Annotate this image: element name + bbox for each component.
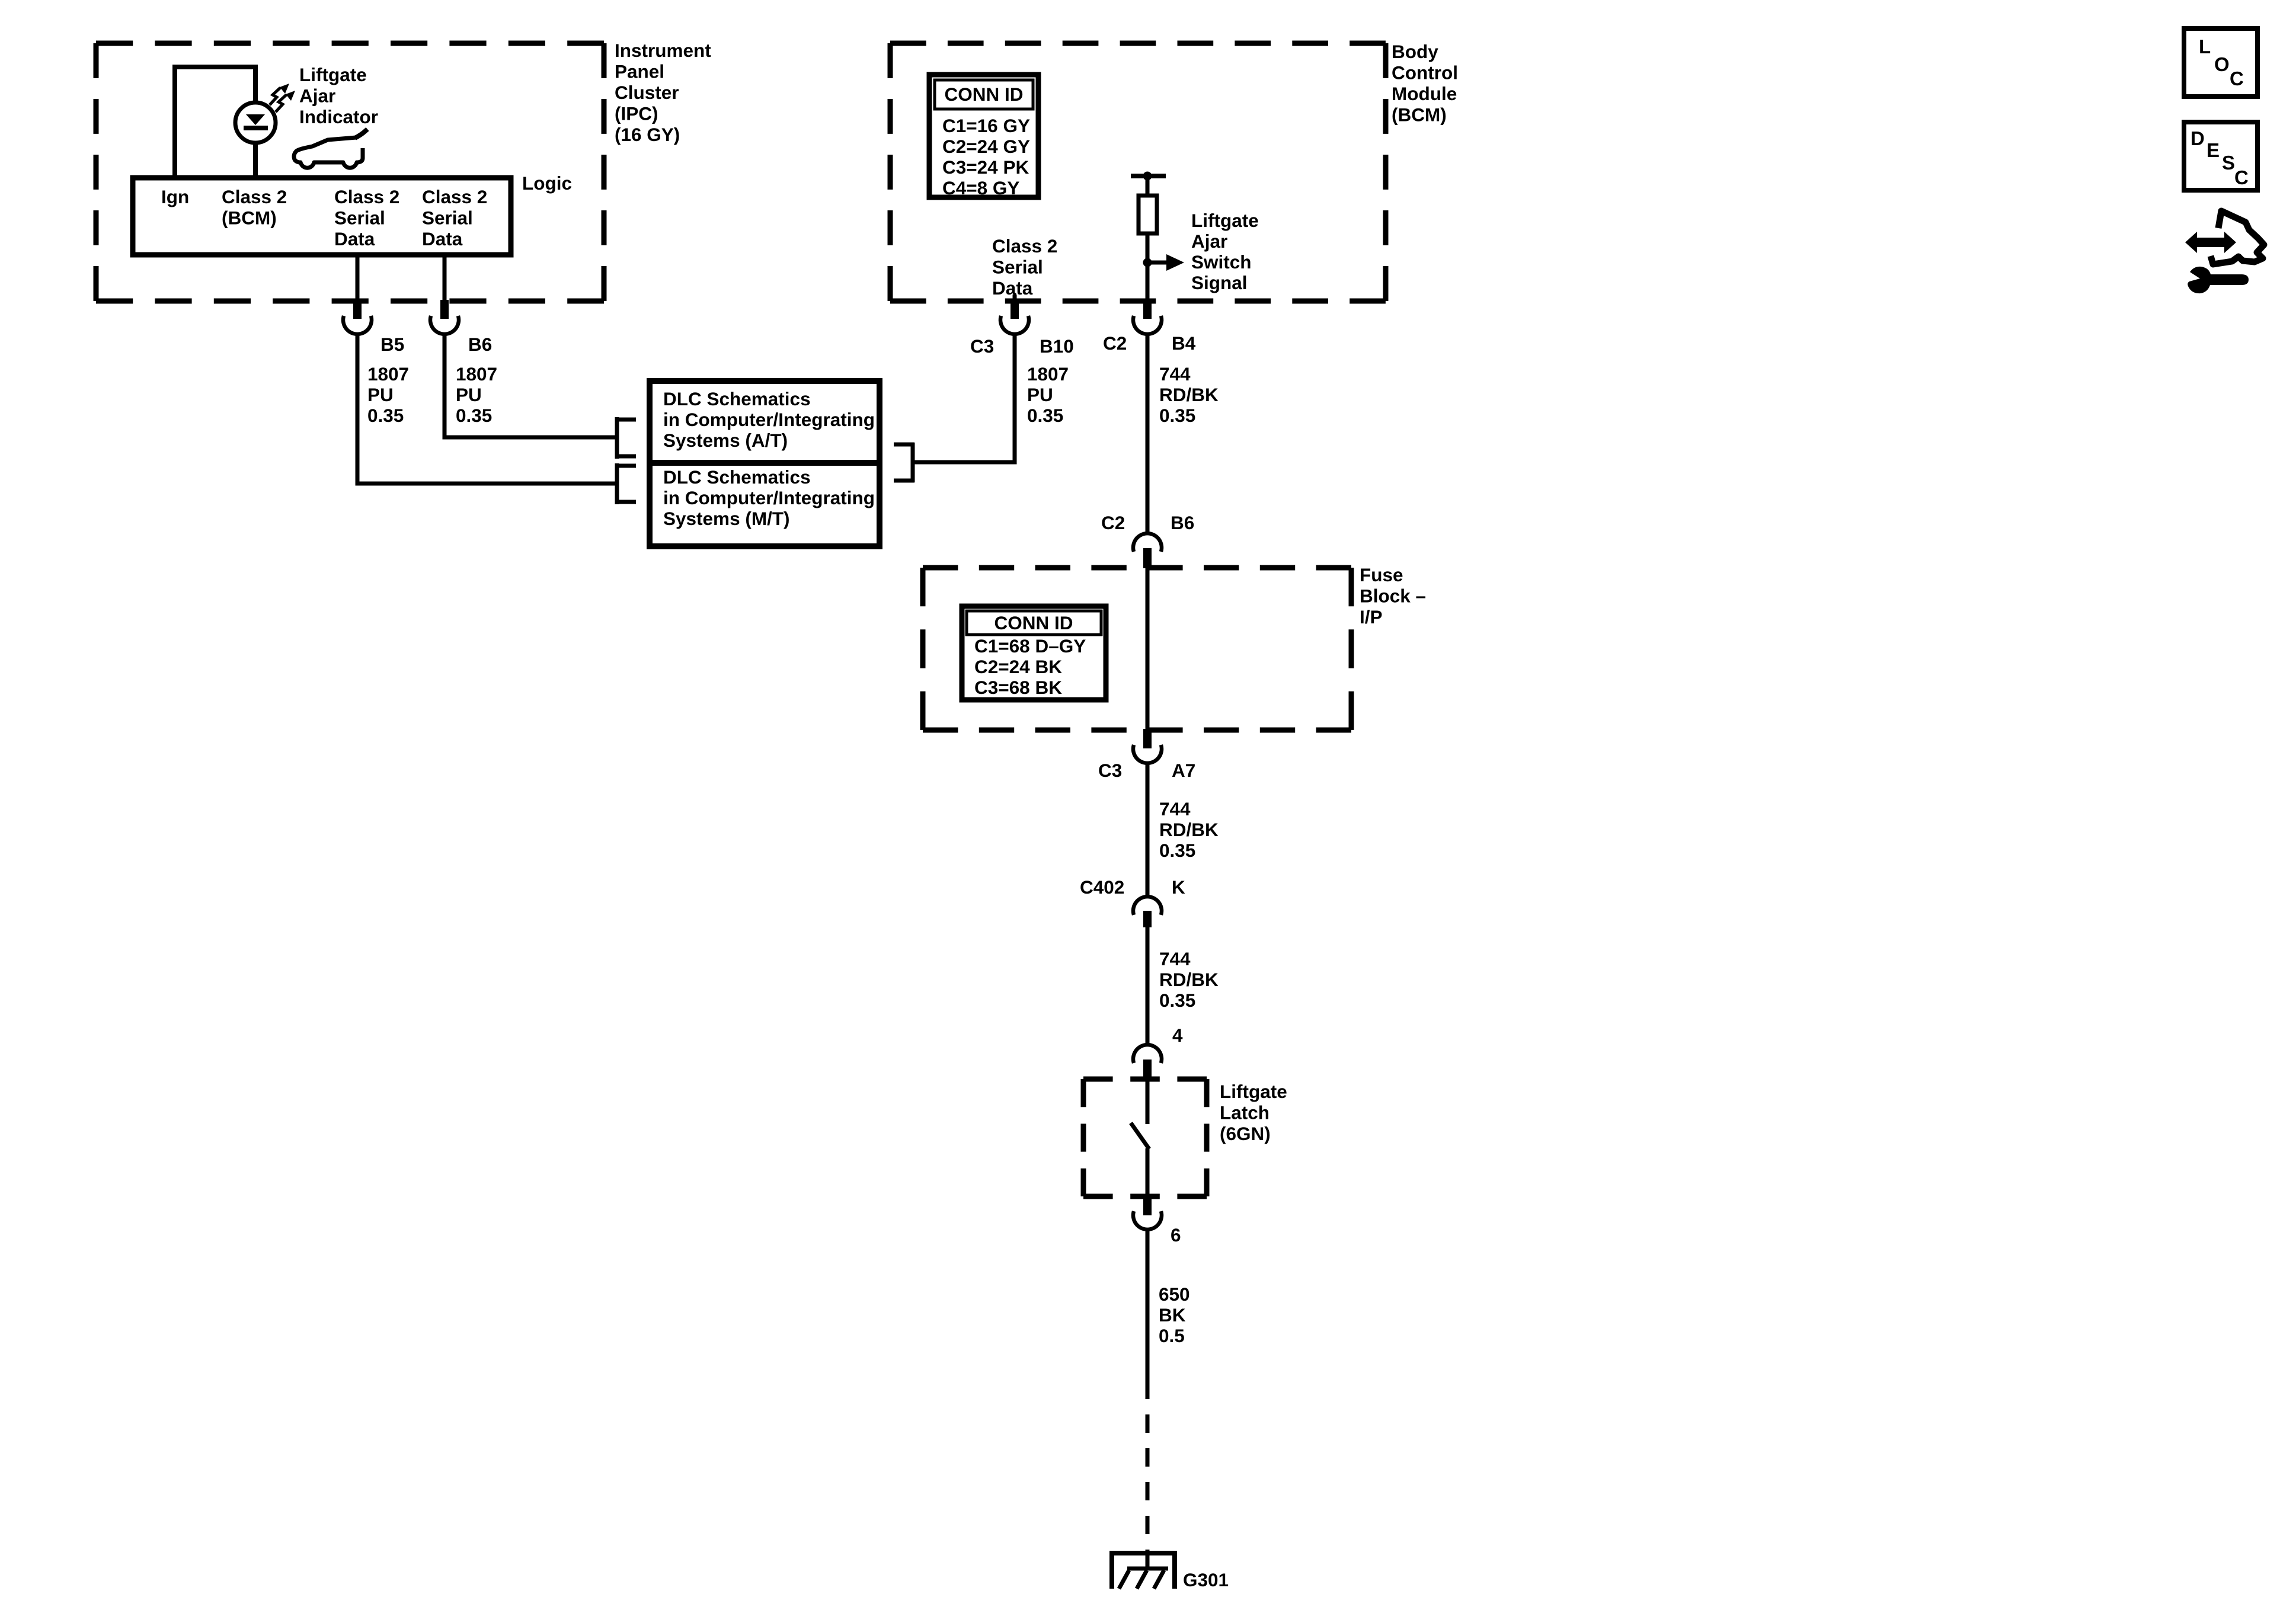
svg-text:C2: C2: [1101, 512, 1125, 533]
ground symbol G301: [1109, 1553, 1177, 1589]
locate/navigate icon: vehicle outline: [2211, 211, 2264, 264]
connector pin B5: [353, 300, 362, 319]
wire to ground (dashed): [1146, 1414, 1150, 1555]
connector pin 4 (latch entry): [1143, 1060, 1152, 1080]
LED indicator D1 circle: [235, 103, 276, 143]
wire inside fuse block: [1146, 568, 1150, 729]
junction dot at rail: [1143, 172, 1152, 181]
wire: logic to B6 connector: [443, 255, 447, 301]
connector dome C402: [1133, 897, 1162, 915]
svg-text:G301: G301: [1183, 1569, 1229, 1590]
svg-text:C: C: [2234, 167, 2249, 188]
svg-text:B10: B10: [1040, 335, 1074, 357]
connector cup B4: [1133, 316, 1162, 334]
wire: logic to B5 connector: [356, 255, 360, 301]
svg-text:C3: C3: [1098, 760, 1122, 781]
svg-text:C3: C3: [970, 335, 994, 357]
dashed module box: Fuse Block - I/P: [923, 568, 1351, 730]
LOC button: [2184, 28, 2257, 97]
svg-text:B6: B6: [468, 334, 492, 355]
wire 6 to ground (solid): [1146, 1228, 1150, 1399]
wire Class2 text to B10 connector: [1013, 295, 1017, 301]
connector pin B6: [440, 300, 449, 319]
internal rail bar: [1131, 174, 1166, 178]
svg-text:Logic: Logic: [522, 172, 572, 194]
svg-text:B4: B4: [1172, 332, 1196, 354]
CONN ID table (BCM): [929, 75, 1038, 197]
light emission bolt 2: [276, 91, 295, 112]
connector cup A7 (fuse exit): [1133, 745, 1162, 763]
svg-text:K: K: [1172, 876, 1185, 898]
DESC button: [2184, 122, 2257, 190]
dashed module box: Instrument Panel Cluster (IPC): [96, 43, 604, 301]
off-page bracket right of DLC boxes: [894, 443, 914, 482]
connector pin B4: [1143, 300, 1152, 319]
connector pin 6 (latch exit): [1143, 1195, 1152, 1215]
off-page bracket to M/T box: [615, 463, 636, 504]
wire B5 to DLC M/T bracket: [357, 332, 615, 484]
connector cup B10: [1000, 316, 1029, 334]
CONN ID header box (fuse block): [967, 611, 1101, 635]
svg-text:B6: B6: [1171, 512, 1194, 533]
CONN ID header box (BCM): [935, 80, 1033, 109]
wire C402 to latch: [1146, 927, 1150, 1045]
connector pin B10: [1011, 300, 1019, 319]
wire B4 to fuse block: [1146, 332, 1150, 534]
locate/navigate icon: wrench: [2188, 267, 2249, 293]
light emission bolt 1: [270, 84, 289, 105]
connector dome B6 (fuse entry): [1133, 533, 1162, 552]
logic box (IPC): [133, 178, 511, 255]
svg-text:A7: A7: [1172, 760, 1195, 781]
off-page bracket to A/T box: [615, 417, 636, 459]
wire: Ign loop to LED: [175, 67, 255, 178]
liftgate-open car icon: [294, 129, 367, 168]
wire inside latch (upper): [1146, 1080, 1150, 1124]
connector pin C402: [1143, 911, 1152, 927]
svg-text:Ign: Ign: [161, 186, 189, 207]
locate/navigate icon: double arrow: [2185, 232, 2236, 253]
connector pin B6 (fuse entry): [1143, 548, 1152, 568]
svg-text:D: D: [2191, 127, 2205, 149]
svg-text:CONN ID: CONN ID: [994, 612, 1073, 633]
LED diode triangle: [246, 114, 265, 125]
svg-text:C: C: [2230, 68, 2244, 89]
svg-text:C402: C402: [1080, 876, 1124, 898]
signal arrow: [1147, 261, 1168, 265]
wire inside latch (lower): [1146, 1148, 1150, 1196]
DLC box divider: [653, 460, 877, 466]
connector dome 4 (latch entry): [1133, 1045, 1162, 1063]
svg-text:6: 6: [1171, 1224, 1181, 1246]
connector cup B5: [343, 316, 372, 334]
svg-text:C2: C2: [1103, 332, 1127, 354]
junction dot at signal tap: [1143, 258, 1152, 267]
dashed module box: Liftgate Latch (6GN): [1083, 1079, 1207, 1196]
wire A7 to C402: [1146, 762, 1150, 897]
connector cup 6 (latch exit): [1133, 1211, 1162, 1230]
LED wire to logic box: [253, 142, 258, 178]
svg-text:S: S: [2222, 152, 2235, 174]
CONN ID table (fuse block): [962, 606, 1106, 700]
resistor (pull-up): [1139, 196, 1157, 233]
LED cathode bar: [244, 126, 268, 130]
connector cup B6: [430, 316, 459, 334]
svg-text:CONN ID: CONN ID: [945, 84, 1024, 105]
DLC Schematics reference box: [650, 381, 880, 546]
wire rail to resistor: [1146, 176, 1150, 197]
svg-text:4: 4: [1172, 1025, 1183, 1046]
svg-text:E: E: [2207, 139, 2220, 161]
switch blade (liftgate latch switch): [1131, 1123, 1149, 1149]
svg-text:O: O: [2214, 53, 2230, 75]
wire junction to B4 connector: [1146, 263, 1150, 301]
connector pin A7 (fuse exit): [1143, 729, 1152, 748]
wire resistor to junction: [1146, 233, 1150, 263]
svg-text:B5: B5: [380, 334, 404, 355]
dashed module box: Body Control Module (BCM): [890, 43, 1386, 301]
wire bracket to B10: [914, 332, 1015, 462]
svg-text:L: L: [2199, 36, 2211, 57]
svg-text:C1=16 GYC2=24 GYC3=24 PKC4=8 G: C1=16 GYC2=24 GYC3=24 PKC4=8 GY: [942, 115, 1030, 199]
wire B6 to DLC A/T bracket: [445, 332, 615, 437]
